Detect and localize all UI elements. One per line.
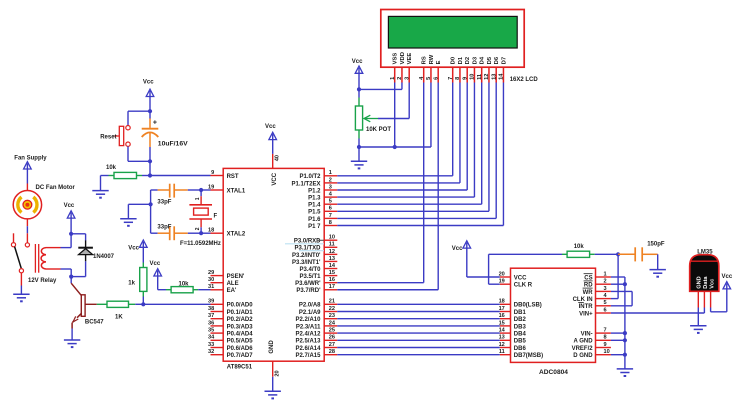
wire XTAL1 net bbox=[188, 189, 211, 191]
svg-text:2: 2 bbox=[397, 77, 403, 80]
MCU pin 6 P1.5 bbox=[308, 206, 337, 216]
wire relay coil top to Vcc node bbox=[61, 234, 72, 248]
wire POT to ground bbox=[358, 147, 360, 161]
ground (POT) bbox=[351, 161, 367, 168]
svg-text:P1.3: P1.3 bbox=[308, 196, 321, 202]
wire 10k to MCU EA' bbox=[198, 289, 210, 291]
svg-text:16X2 LCD: 16X2 LCD bbox=[510, 77, 539, 83]
node collector junction bbox=[69, 275, 73, 279]
LCD pin 3 VEE bbox=[404, 53, 413, 83]
svg-text:11: 11 bbox=[477, 74, 483, 80]
MCU pin 8 P1 7 bbox=[308, 220, 337, 230]
wire motor to switch terminal bbox=[26, 219, 28, 243]
wire P2.7/A15 to ADC DB7 bbox=[337, 354, 500, 356]
artifact highlight line P3.0 bbox=[285, 243, 324, 245]
wire 33pF common vertical bbox=[150, 190, 152, 233]
svg-text:ADC0804: ADC0804 bbox=[539, 369, 568, 376]
crystal X1 11.0592MHz bbox=[180, 190, 221, 247]
svg-text:9: 9 bbox=[604, 342, 607, 348]
svg-text:D7: D7 bbox=[501, 57, 507, 64]
svg-text:10K POT: 10K POT bbox=[366, 127, 391, 133]
node P0.0/AD0 junction bbox=[141, 302, 145, 306]
svg-text:DB1: DB1 bbox=[514, 310, 527, 316]
LCD pin 4 RS bbox=[419, 56, 428, 82]
diode D1 1N4007 bbox=[78, 240, 114, 261]
wire Vcc to ADC VCC bbox=[467, 276, 500, 278]
MCU pin 18 XTAL2 bbox=[208, 228, 246, 238]
svg-text:37: 37 bbox=[208, 313, 214, 319]
svg-text:D2: D2 bbox=[465, 57, 471, 64]
svg-text:1: 1 bbox=[390, 77, 396, 80]
svg-text:BC547: BC547 bbox=[85, 320, 104, 326]
LCD LCD1 16X2 body bbox=[381, 10, 524, 68]
svg-text:P2.5/A13: P2.5/A13 bbox=[295, 339, 321, 345]
MCU pin 26 P2.5/A13 bbox=[295, 335, 337, 345]
svg-text:3: 3 bbox=[329, 184, 332, 190]
ADC pin 7 VIN- bbox=[581, 328, 611, 338]
wire RST node to MCU RST bbox=[150, 175, 211, 177]
power flag Vcc (MCU pin 40) bbox=[265, 124, 277, 154]
svg-text:P2.7/A15: P2.7/A15 bbox=[295, 353, 321, 359]
MCU pin 4 P1.3 bbox=[308, 192, 337, 202]
svg-text:8: 8 bbox=[329, 220, 332, 226]
svg-text:INTR: INTR bbox=[579, 304, 594, 310]
wire D GND to net bbox=[611, 354, 625, 356]
wire P2.2/A10 to ADC DB2 bbox=[337, 318, 500, 320]
svg-text:8: 8 bbox=[455, 77, 461, 80]
ground (ADC) bbox=[617, 369, 633, 376]
relay RL1 coil 12V Relay bbox=[28, 248, 61, 285]
svg-text:P0.3/AD3: P0.3/AD3 bbox=[227, 324, 254, 330]
MCU pin 23 P2.2/A10 bbox=[295, 313, 337, 323]
svg-text:P0.2/AD2: P0.2/AD2 bbox=[227, 317, 254, 323]
artifact highlight line P3.1 bbox=[299, 250, 324, 252]
MCU pin 20 GND stub bbox=[273, 361, 281, 377]
svg-text:26: 26 bbox=[329, 335, 335, 341]
MCU pin 38 P0.1/AD1 bbox=[208, 306, 253, 316]
svg-text:40: 40 bbox=[275, 155, 281, 161]
svg-text:34: 34 bbox=[208, 335, 215, 341]
wire P1.5 to LCD D5 bbox=[337, 83, 489, 212]
svg-text:WR: WR bbox=[583, 290, 594, 296]
svg-text:22: 22 bbox=[329, 306, 335, 312]
svg-text:Fan Supply: Fan Supply bbox=[14, 156, 47, 162]
MCU pin 5 P1.4 bbox=[308, 199, 337, 209]
wire P2.4/A12 to ADC DB4 bbox=[337, 332, 500, 334]
ADC pin 16 DB2 bbox=[499, 313, 527, 323]
svg-text:25: 25 bbox=[329, 328, 335, 334]
wire tap to ground bbox=[128, 204, 150, 218]
svg-text:Vcc: Vcc bbox=[64, 203, 75, 209]
svg-text:24: 24 bbox=[329, 320, 336, 326]
relay RL1 core bbox=[35, 244, 38, 273]
MCU pin 36 P0.3/AD3 bbox=[208, 320, 253, 330]
wire 10k (RST) to ground bbox=[101, 176, 109, 191]
svg-text:P2.0/A8: P2.0/A8 bbox=[299, 303, 321, 309]
resistor 1k (pull-up) bbox=[128, 263, 147, 297]
wire emitter to ground bbox=[71, 329, 73, 341]
ground (RST 10k) bbox=[92, 191, 108, 198]
MCU pin 13 P3.3/INT1' bbox=[292, 256, 337, 266]
node 33pF ground tap bbox=[149, 202, 153, 206]
svg-text:5: 5 bbox=[604, 300, 607, 306]
svg-text:D0: D0 bbox=[451, 57, 457, 64]
svg-text:39: 39 bbox=[208, 299, 214, 305]
ADC pin 9 VREF/2 bbox=[572, 342, 611, 352]
ground (emitter) bbox=[64, 340, 80, 347]
svg-text:VDD: VDD bbox=[400, 52, 406, 64]
svg-text:12: 12 bbox=[484, 74, 490, 80]
MCU pin 30 ALE bbox=[208, 277, 239, 287]
svg-text:11: 11 bbox=[329, 242, 335, 248]
ground (LM35) bbox=[690, 326, 706, 333]
power flag Vcc (10k EA) bbox=[150, 261, 162, 290]
LCD pin 5 RW bbox=[426, 54, 435, 82]
capacitor C3 10uF/16V bbox=[142, 111, 188, 161]
power flag Vcc (POT) bbox=[352, 59, 363, 90]
MCU pin 11 P3.1/TXD bbox=[294, 242, 337, 252]
wire node to CLK IN bbox=[611, 254, 618, 298]
node A GND junction bbox=[623, 338, 627, 342]
svg-text:GND: GND bbox=[269, 340, 275, 354]
wire XTAL2 net bbox=[188, 232, 211, 234]
wire 1K to P0.0 node bbox=[135, 303, 143, 305]
MCU pin 27 P2.6/A14 bbox=[295, 342, 337, 352]
wire button to bottom node bbox=[128, 146, 150, 161]
node reset top junction bbox=[148, 109, 152, 113]
wire MCU GND to ground bbox=[272, 377, 274, 392]
MCU pin 3 P1.2 bbox=[308, 184, 337, 194]
svg-text:18: 18 bbox=[208, 228, 214, 234]
wire P2.5/A13 to ADC DB5 bbox=[337, 339, 500, 341]
MCU pin 34 P0.5/AD5 bbox=[208, 335, 253, 345]
svg-text:P0.1/AD1: P0.1/AD1 bbox=[227, 310, 254, 316]
ground (33pF) bbox=[120, 219, 136, 226]
MCU pin 28 P2.7/A15 bbox=[295, 349, 337, 359]
svg-text:Vcc: Vcc bbox=[128, 245, 139, 251]
svg-text:P2.2/A10: P2.2/A10 bbox=[295, 317, 321, 323]
MCU pin 7 P1.6 bbox=[308, 213, 337, 223]
LCD pin 8 D1 bbox=[455, 56, 464, 82]
svg-text:21: 21 bbox=[329, 299, 335, 305]
svg-text:VREF/2: VREF/2 bbox=[572, 346, 594, 352]
MCU pin 17 P3.7/RD' bbox=[296, 284, 337, 294]
node CS/RD junction bbox=[623, 282, 627, 286]
wire Vcc node to LCD VDD bbox=[359, 83, 402, 90]
pot RV1 10K POT bbox=[355, 89, 391, 147]
svg-text:9: 9 bbox=[211, 170, 214, 176]
wire P1.2 to LCD D2 bbox=[337, 83, 467, 191]
ADC pin 2 RD bbox=[584, 279, 611, 289]
wire P1.4 to LCD D4 bbox=[337, 83, 481, 205]
svg-text:RS: RS bbox=[422, 56, 428, 64]
svg-text:28: 28 bbox=[329, 349, 335, 355]
MCU pin 10 P3.0/RXD bbox=[294, 235, 337, 245]
svg-text:33pF: 33pF bbox=[157, 224, 171, 230]
ADC pin 18 DB0(LSB) bbox=[499, 299, 542, 309]
svg-text:A GND: A GND bbox=[573, 339, 593, 345]
MCU pin 22 P2.1/A9 bbox=[299, 306, 337, 316]
svg-text:5: 5 bbox=[329, 199, 332, 205]
MCU pin 32 P0.7/AD7 bbox=[208, 349, 253, 359]
ADC pin 3 WR bbox=[583, 286, 611, 296]
svg-text:5: 5 bbox=[426, 77, 432, 80]
wire P1.1 to LCD D1 bbox=[337, 83, 460, 183]
svg-text:P1.5: P1.5 bbox=[308, 210, 321, 216]
ground (150pF) bbox=[650, 270, 666, 277]
svg-text:P0.7/AD7: P0.7/AD7 bbox=[227, 353, 254, 359]
MCU pin 31 EA' bbox=[208, 284, 237, 294]
svg-text:P1.2: P1.2 bbox=[308, 188, 321, 194]
svg-text:10k: 10k bbox=[179, 281, 190, 287]
wire POT bottom to VSS and RW bbox=[359, 83, 431, 148]
svg-text:VIN+: VIN+ bbox=[579, 311, 593, 317]
svg-text:6: 6 bbox=[329, 206, 332, 212]
motor M1 DC Fan Motor bbox=[13, 185, 75, 219]
MCU pin 1 P1.0/T2 bbox=[299, 170, 337, 180]
node POT bottom junction bbox=[357, 145, 361, 149]
MCU pin 16 P3.6/WR' bbox=[295, 277, 337, 287]
MCU pin 9 RST bbox=[211, 170, 239, 180]
ADC pin 6 VIN+ bbox=[579, 307, 611, 317]
svg-text:23: 23 bbox=[329, 313, 335, 319]
wire A GND to net bbox=[611, 339, 625, 341]
svg-text:29: 29 bbox=[208, 270, 214, 276]
ground (MCU GND) bbox=[265, 391, 281, 398]
MCU pin 37 P0.2/AD2 bbox=[208, 313, 253, 323]
wire P1.6 to LCD D6 bbox=[337, 83, 496, 219]
svg-text:VEE: VEE bbox=[407, 53, 413, 65]
LCD pin 1 VSS bbox=[390, 53, 399, 83]
LCD pin 2 VDD bbox=[397, 52, 406, 82]
sensor U3 LM35 bbox=[690, 250, 719, 292]
node reset bottom junction bbox=[148, 159, 152, 163]
svg-text:1: 1 bbox=[604, 271, 607, 277]
svg-text:GND: GND bbox=[697, 276, 703, 288]
MCU pin 14 P3.4/T0 bbox=[299, 263, 337, 273]
svg-text:2: 2 bbox=[604, 279, 607, 285]
ADC pin 12 DB6 bbox=[499, 342, 527, 352]
wire P2.3/A11 to ADC DB3 bbox=[337, 325, 500, 327]
svg-text:P2.3/A11: P2.3/A11 bbox=[296, 324, 321, 330]
svg-text:Data: Data bbox=[703, 276, 709, 289]
ADC pin 19 CLK R bbox=[499, 279, 533, 289]
wire P1.0 to LCD D0 bbox=[337, 83, 452, 176]
pot wiper bbox=[364, 83, 409, 122]
svg-text:DC Fan Motor: DC Fan Motor bbox=[36, 185, 76, 191]
svg-text:F=11.0592MHz: F=11.0592MHz bbox=[180, 241, 221, 247]
svg-text:2: 2 bbox=[329, 177, 332, 183]
svg-text:1N4007: 1N4007 bbox=[93, 254, 115, 260]
MCU pin label VCC bbox=[272, 172, 278, 185]
svg-text:E: E bbox=[436, 60, 442, 64]
svg-text:D3: D3 bbox=[472, 56, 478, 64]
svg-text:P3.3/INT1': P3.3/INT1' bbox=[292, 260, 321, 266]
svg-text:35: 35 bbox=[208, 328, 214, 334]
svg-text:P3.4/T0: P3.4/T0 bbox=[299, 267, 321, 273]
svg-text:P0.0/AD0: P0.0/AD0 bbox=[227, 303, 254, 309]
svg-text:P3.2/INT0': P3.2/INT0' bbox=[292, 253, 321, 259]
wire 150pF to ground bbox=[657, 254, 659, 269]
svg-text:Vcc: Vcc bbox=[352, 59, 363, 65]
wire P2.1/A9 to ADC DB1 bbox=[337, 311, 500, 313]
wire P3.6/WR' to LCD RS bbox=[337, 83, 423, 283]
MCU pin 12 P3.2/INT0' bbox=[292, 249, 337, 259]
node VSS junction bbox=[393, 145, 397, 149]
power flag Vcc (relay) bbox=[64, 203, 75, 234]
capacitor C2 33pF bbox=[151, 224, 188, 240]
ADC U2 ADC0804 body bbox=[511, 268, 596, 376]
svg-text:33pF: 33pF bbox=[157, 199, 171, 205]
wire Fan Supply to motor bbox=[26, 184, 28, 192]
svg-text:1k: 1k bbox=[128, 280, 135, 286]
label 16X2 LCD bbox=[510, 77, 539, 83]
MCU pin 35 P0.4/AD4 bbox=[208, 328, 253, 338]
svg-text:F: F bbox=[214, 213, 218, 219]
ADC pin 10 D GND bbox=[573, 349, 611, 359]
svg-text:DB3: DB3 bbox=[514, 324, 527, 330]
LCD display area bbox=[388, 16, 517, 48]
svg-text:31: 31 bbox=[208, 284, 214, 290]
svg-text:10: 10 bbox=[329, 235, 335, 241]
svg-text:10k: 10k bbox=[106, 165, 117, 171]
svg-text:CLK R: CLK R bbox=[514, 283, 533, 289]
svg-text:RST: RST bbox=[227, 174, 239, 180]
svg-text:33: 33 bbox=[208, 342, 214, 348]
wire relay coil bottom to collector node bbox=[61, 269, 72, 277]
node relay/diode top junction bbox=[69, 232, 73, 236]
MCU pin 33 P0.6/AD6 bbox=[208, 342, 253, 352]
svg-text:DB7(MSB): DB7(MSB) bbox=[514, 353, 543, 359]
svg-text:10: 10 bbox=[470, 74, 476, 80]
svg-text:VCC: VCC bbox=[272, 172, 278, 185]
MCU pin 40 VCC stub bbox=[273, 154, 281, 169]
ADC pin 17 DB1 bbox=[499, 306, 527, 316]
wire 1k to P0.0 node bbox=[142, 297, 144, 305]
wire ADC RD to junction bbox=[611, 283, 625, 285]
wire junction to diode cathode bbox=[71, 234, 86, 241]
svg-text:AT89C51: AT89C51 bbox=[227, 365, 253, 371]
svg-text:P2.6/A14: P2.6/A14 bbox=[295, 346, 321, 352]
push button Reset bbox=[100, 126, 130, 147]
svg-text:16: 16 bbox=[329, 277, 335, 283]
node XTAL2 junction bbox=[199, 231, 203, 235]
ADC pin 20 VCC bbox=[499, 271, 528, 281]
svg-text:D6: D6 bbox=[494, 56, 500, 64]
LCD pin 14 D7 bbox=[499, 57, 508, 83]
MCU pin 2 P1.1/T2EX bbox=[291, 177, 337, 187]
MCU pin 25 P2.4/A12 bbox=[295, 328, 337, 338]
svg-text:DB6: DB6 bbox=[514, 346, 527, 352]
svg-text:P1.1/T2EX: P1.1/T2EX bbox=[291, 181, 320, 187]
LCD pin 13 D6 bbox=[491, 56, 500, 82]
svg-text:P1.0/T2: P1.0/T2 bbox=[299, 174, 321, 180]
svg-text:6: 6 bbox=[604, 307, 607, 313]
node XTAL1 junction bbox=[199, 188, 203, 192]
resistor 10k (ADC clock) bbox=[562, 244, 618, 258]
capacitor 150pF bbox=[618, 242, 665, 262]
svg-text:+: + bbox=[153, 120, 157, 127]
ADC pin 1 CS bbox=[584, 271, 611, 281]
svg-text:P0.5/AD5: P0.5/AD5 bbox=[227, 339, 254, 345]
wire P2.6/A14 to ADC DB6 bbox=[337, 347, 500, 349]
resistor 10k (RST) bbox=[106, 165, 150, 178]
wire LM35 Data to VIN+ net bbox=[703, 308, 705, 314]
MCU pin 21 P2.0/A8 bbox=[299, 299, 337, 309]
svg-text:Reset: Reset bbox=[100, 135, 116, 141]
svg-text:17: 17 bbox=[329, 284, 335, 290]
power flag Vcc (1k pull-up) bbox=[128, 240, 147, 263]
svg-text:Vcc: Vcc bbox=[709, 279, 715, 289]
svg-text:P3.6/WR': P3.6/WR' bbox=[295, 281, 321, 287]
svg-text:27: 27 bbox=[329, 342, 335, 348]
node POT top junction bbox=[357, 87, 361, 91]
MCU pin 29 PSEN' bbox=[208, 270, 245, 280]
ground (switch) bbox=[13, 294, 29, 301]
svg-text:D4: D4 bbox=[480, 56, 486, 64]
svg-text:20: 20 bbox=[274, 370, 280, 376]
svg-text:15: 15 bbox=[329, 270, 335, 276]
wire ADC CLK R to RC node bbox=[489, 254, 562, 284]
svg-text:EA': EA' bbox=[227, 288, 237, 294]
svg-text:P1.4: P1.4 bbox=[308, 203, 321, 209]
svg-text:9: 9 bbox=[462, 77, 468, 80]
svg-text:VCC: VCC bbox=[514, 275, 527, 281]
node RST junction bbox=[148, 173, 152, 177]
ADC pin 4 CLK IN bbox=[573, 293, 611, 303]
svg-text:D5: D5 bbox=[487, 56, 493, 64]
LCD pin 11 D4 bbox=[477, 56, 486, 82]
svg-text:7: 7 bbox=[448, 77, 454, 80]
svg-text:10: 10 bbox=[604, 349, 610, 355]
svg-text:13: 13 bbox=[329, 256, 335, 262]
power flag Vcc (ADC) bbox=[452, 241, 471, 277]
transistor Q1 BC547 bbox=[71, 277, 104, 329]
MCU pin 24 P2.3/A11 bbox=[296, 320, 337, 330]
svg-text:P3.7/RD': P3.7/RD' bbox=[296, 288, 321, 294]
ADC pin 13 DB5 bbox=[499, 335, 527, 345]
wire P2.0/A8 to ADC DB0 bbox=[337, 303, 500, 305]
svg-text:150pF: 150pF bbox=[647, 242, 665, 248]
LM35 pin Vcc bbox=[710, 291, 712, 307]
wire Vcc to 10k (EA) bbox=[158, 289, 166, 291]
svg-text:1: 1 bbox=[329, 170, 332, 176]
wire LM35 Vcc to power flag bbox=[711, 289, 727, 312]
capacitor C1 33pF bbox=[151, 184, 188, 206]
svg-text:Vcc: Vcc bbox=[150, 261, 161, 267]
wire ADC CS to RD junction bbox=[611, 277, 625, 284]
LCD pin 7 D0 bbox=[448, 57, 457, 83]
LCD pin 6 E bbox=[433, 60, 442, 82]
node ADC clock junction bbox=[616, 252, 620, 256]
svg-text:PSEN': PSEN' bbox=[227, 274, 245, 280]
svg-text:P0.4/AD4: P0.4/AD4 bbox=[227, 332, 254, 338]
svg-text:1: 1 bbox=[195, 197, 201, 200]
wire CS/RD net to ground bbox=[624, 284, 626, 369]
switch SW1 bbox=[11, 233, 29, 285]
svg-text:3: 3 bbox=[404, 77, 410, 80]
svg-text:DB2: DB2 bbox=[514, 317, 527, 323]
svg-text:6: 6 bbox=[433, 77, 439, 80]
node D GND junction bbox=[623, 353, 627, 357]
MCU pin 39 P0.0/AD0 bbox=[208, 299, 253, 309]
MCU pin 19 XTAL1 bbox=[208, 184, 246, 194]
MCU pin label GND bbox=[269, 340, 275, 354]
ADC pin 15 DB3 bbox=[499, 320, 527, 330]
wire VIN+ to LM35 Data bbox=[611, 312, 705, 314]
wire P3.7/RD' to LCD E bbox=[337, 83, 438, 290]
ADC pin 8 A GND bbox=[573, 335, 610, 345]
